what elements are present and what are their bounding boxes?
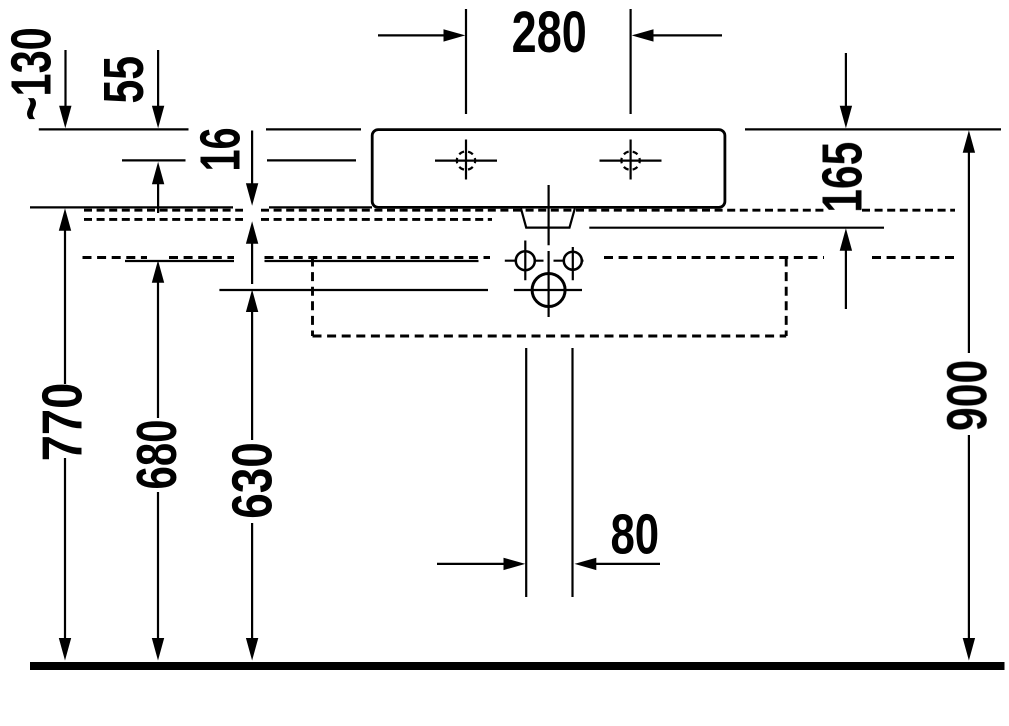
svg-text:55: 55 <box>92 56 155 104</box>
svg-text:900: 900 <box>936 360 999 431</box>
svg-text:770: 770 <box>32 383 95 462</box>
svg-text:80: 80 <box>610 502 659 566</box>
svg-text:165: 165 <box>811 142 874 213</box>
svg-text:680: 680 <box>125 419 189 489</box>
svg-text:630: 630 <box>220 442 284 519</box>
svg-text:16: 16 <box>190 127 253 171</box>
svg-text:280: 280 <box>512 0 587 65</box>
svg-text:~130: ~130 <box>0 27 63 120</box>
